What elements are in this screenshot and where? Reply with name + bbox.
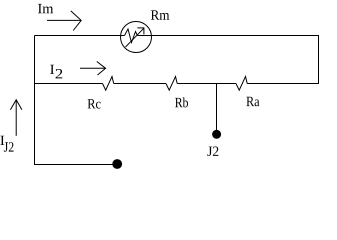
- wire middle horizontal segment 4: [247, 83, 319, 85]
- node bottom terminal dot: [112, 159, 122, 169]
- label Im: [38, 4, 53, 13]
- meter variable arrow shaft: [126, 28, 144, 47]
- label Rc: [88, 99, 101, 108]
- wire middle horizontal segment 2: [114, 83, 166, 85]
- wire J2 vertical stub: [216, 84, 218, 131]
- current arrow I2 head: [97, 62, 106, 76]
- meter internal resistor zigzag: [125, 29, 138, 43]
- wire right vertical: [318, 36, 320, 84]
- meter variable arrow head: [137, 28, 144, 35]
- label Rm: [151, 10, 169, 19]
- node J2 dot: [212, 130, 221, 139]
- wire left vertical: [34, 36, 36, 166]
- current arrow IJ2 shaft: [15, 100, 17, 136]
- current arrow Im shaft: [47, 19, 81, 21]
- label J2: [207, 147, 218, 157]
- resistor Ra: [236, 77, 247, 91]
- wire middle horizontal segment 3: [177, 83, 236, 85]
- label Rb: [175, 97, 188, 107]
- current arrow IJ2 head: [10, 100, 22, 110]
- label I2: [50, 65, 62, 79]
- wire top horizontal left segment: [35, 35, 125, 37]
- op meter U1 circle (galvanometer Rm): [121, 22, 152, 53]
- label IJ2: [0, 136, 13, 152]
- label Ra: [246, 97, 259, 106]
- wire top horizontal right segment: [137, 35, 319, 37]
- current arrow Im head: [71, 11, 81, 31]
- resistor Rb: [166, 77, 177, 91]
- current arrow I2 shaft: [80, 67, 106, 69]
- wire bottom horizontal: [35, 164, 114, 166]
- resistor Rc: [103, 77, 114, 91]
- wire middle horizontal segment 1: [35, 83, 103, 85]
